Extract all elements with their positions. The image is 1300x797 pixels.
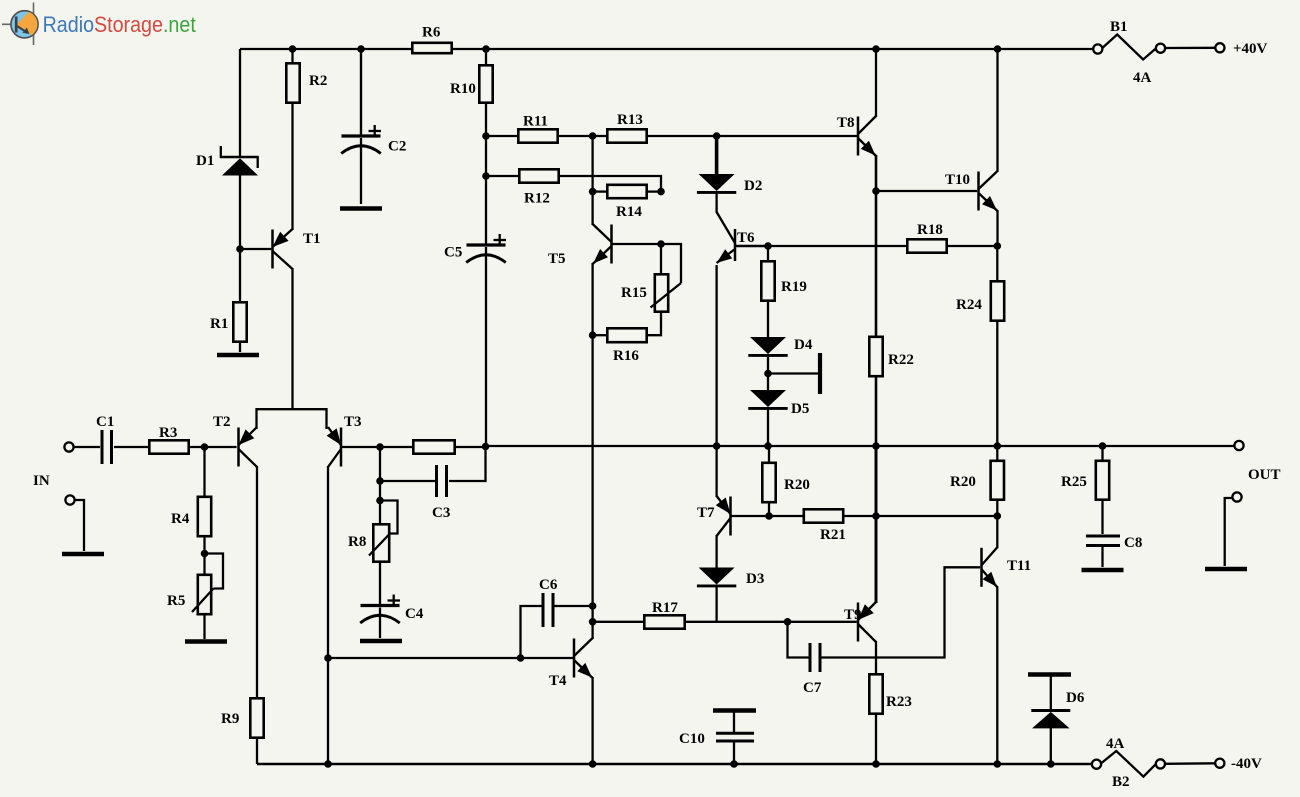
wire T7 base	[731, 515, 770, 517]
fuse B1	[1093, 35, 1165, 60]
node T10 collector junction	[994, 45, 1002, 53]
transistor T11	[982, 547, 998, 587]
capacitor plate top of D6	[1028, 672, 1071, 677]
svg-text:R1: R1	[210, 316, 228, 332]
label R2	[309, 73, 327, 89]
wire T9 emitter	[875, 446, 878, 603]
node T1 base junction	[236, 245, 244, 253]
ground (below C2)	[340, 206, 382, 211]
label T6	[737, 230, 755, 246]
label 4A (top)	[1133, 70, 1152, 86]
wire D1 to base node	[239, 176, 241, 250]
wire top +40V rail	[240, 48, 1094, 50]
resistor R4	[198, 497, 211, 536]
resistor R17	[644, 615, 684, 628]
node R19 top junction	[764, 242, 772, 250]
node C6 right junction	[589, 602, 597, 610]
label T5	[548, 251, 566, 267]
node T3 base junction	[376, 443, 384, 451]
label C10	[679, 731, 705, 747]
svg-text:T1: T1	[303, 231, 321, 247]
node R13 left junction	[589, 132, 597, 140]
transistor T3	[327, 427, 341, 467]
wire T8 emitter to R22	[875, 191, 878, 338]
wire R12 row	[486, 176, 661, 192]
capacitor C3	[437, 465, 447, 497]
rheostat R15	[651, 244, 682, 312]
node R23 rail junction	[872, 760, 880, 768]
wire R1 to ground	[239, 341, 241, 352]
svg-text:R25: R25	[1061, 474, 1087, 490]
wire T10 base row	[876, 190, 977, 192]
transistor T4	[574, 638, 593, 678]
svg-text:+40V: +40V	[1233, 41, 1268, 57]
wire R13 row to T8 base	[717, 135, 857, 137]
label C4	[405, 606, 424, 622]
svg-text:C10: C10	[679, 731, 705, 747]
label T3	[344, 414, 362, 430]
wire base node to R1	[239, 249, 241, 303]
wire thermal tap	[768, 372, 818, 374]
label R20 (left)	[784, 477, 810, 493]
wire T11 collector	[996, 516, 998, 548]
node R17 left junction	[589, 618, 597, 626]
node C2 top junction	[357, 45, 365, 53]
resistor R9	[250, 698, 263, 737]
wire C7 left	[788, 622, 809, 658]
label R10	[450, 81, 476, 97]
capacitor C6	[543, 593, 553, 627]
svg-text:R16: R16	[613, 348, 639, 364]
wire C5 down to output rail	[485, 247, 487, 446]
label R20 (right)	[950, 474, 976, 490]
wire R17 right	[684, 621, 788, 623]
wire R4 column	[203, 447, 205, 639]
resistor R24	[991, 281, 1004, 320]
node R8 loop junction	[376, 497, 384, 505]
wire R20 (right) bottom	[996, 499, 998, 516]
svg-text:R20: R20	[950, 474, 976, 490]
wire T5 base to R15	[612, 243, 662, 245]
wire C6 left	[521, 606, 542, 658]
svg-text:R24: R24	[956, 297, 982, 313]
thermal sense bar	[818, 353, 822, 394]
terminal +40V	[1215, 43, 1224, 52]
wire R18 right	[946, 245, 997, 247]
terminal -40V	[1215, 759, 1224, 768]
wire OUT lower to ground	[1225, 498, 1233, 566]
resistor R6	[412, 43, 451, 53]
transistor T6	[717, 212, 735, 263]
label T10	[945, 172, 970, 188]
svg-text:D3: D3	[746, 571, 764, 587]
label C3	[432, 505, 450, 521]
label D4	[794, 337, 813, 353]
wire R8 to C4	[379, 562, 381, 604]
label R23	[886, 694, 912, 710]
node R18 right junction	[994, 242, 1002, 250]
svg-text:T11: T11	[1007, 558, 1031, 574]
svg-text:RadioStorage.net: RadioStorage.net	[43, 13, 196, 38]
node C10 rail junction	[730, 760, 738, 768]
label R15	[621, 285, 647, 301]
svg-text:C7: C7	[803, 680, 822, 696]
wire T3 base to node A	[342, 446, 486, 448]
wire R23 to rail	[875, 713, 877, 764]
wire C2 to ground	[360, 138, 362, 204]
diode D3	[697, 568, 736, 586]
label C6	[539, 577, 558, 593]
svg-text:4A: 4A	[1106, 736, 1125, 752]
wire T1 collector down	[291, 268, 293, 409]
wire R24 to rail	[996, 320, 998, 446]
svg-text:R22: R22	[888, 352, 914, 368]
wire R24 top	[996, 246, 998, 282]
svg-text:R5: R5	[167, 593, 185, 609]
svg-text:R11: R11	[523, 114, 548, 130]
node R16 left junction	[589, 331, 597, 339]
resistor R10	[479, 65, 492, 102]
label T1	[303, 231, 321, 247]
svg-text:C2: C2	[388, 139, 406, 155]
ground (below R5)	[185, 639, 227, 644]
label T2	[213, 414, 231, 430]
node R4/R5 junction	[201, 550, 209, 558]
label D3	[746, 571, 764, 587]
svg-text:R23: R23	[886, 694, 912, 710]
wire IN lower to ground	[75, 500, 85, 551]
wire input row left	[73, 446, 236, 448]
label R12	[524, 191, 550, 207]
resistor R12	[519, 169, 558, 182]
node T8 collector junction	[872, 45, 880, 53]
wire C8 to ground	[1101, 547, 1103, 567]
wire C4 to ground	[379, 608, 381, 639]
node R12 junction	[482, 172, 490, 180]
node T4 emitter rail junction	[589, 760, 597, 768]
svg-text:T5: T5	[548, 251, 566, 267]
label C7	[803, 680, 822, 696]
node output rail / C5 junction	[482, 443, 490, 451]
wire D2 top	[715, 136, 719, 174]
wire R22 to rail	[875, 376, 878, 447]
label T7	[697, 505, 715, 521]
node T3 column bottom rail junction	[324, 760, 332, 768]
node D4/D5 junction	[764, 370, 772, 378]
label R17	[652, 600, 678, 616]
ground (output)	[1205, 567, 1247, 572]
svg-text:4A: 4A	[1133, 70, 1152, 86]
node R14 left junction	[589, 188, 597, 196]
wire R25 top	[1101, 446, 1103, 462]
ground (below C8)	[1082, 568, 1124, 573]
node R14 right junction	[657, 188, 665, 196]
resistor R18	[907, 239, 946, 252]
wire C7 right to T11 base	[822, 567, 981, 657]
wire B1 to +40V terminal	[1165, 47, 1216, 50]
node R22 rail junction	[872, 442, 880, 450]
label C5	[444, 245, 462, 261]
ground (below C4)	[360, 639, 402, 644]
wire rail to R2	[291, 49, 293, 64]
wire T2 collector down to R9	[256, 466, 258, 699]
transistor T1	[273, 229, 293, 269]
transistor T8	[858, 116, 876, 156]
wire R14 left	[591, 136, 593, 225]
wire T1 base	[240, 248, 271, 250]
svg-text:R20: R20	[784, 477, 810, 493]
label 4A (bottom)	[1106, 736, 1125, 752]
svg-text:R13: R13	[617, 112, 643, 128]
wire T3 collector down	[327, 466, 329, 764]
svg-text:R2: R2	[309, 73, 327, 89]
wire D3 to R17 row	[715, 586, 717, 622]
ground (below R1)	[217, 353, 259, 358]
fuse B2	[1092, 751, 1165, 777]
label R13	[617, 112, 643, 128]
label R14	[616, 204, 642, 220]
trimmer R5	[192, 554, 223, 615]
svg-text:C6: C6	[539, 577, 558, 593]
node C3 left junction	[376, 477, 384, 485]
svg-text:R4: R4	[171, 511, 190, 527]
wire D6 top	[1050, 676, 1052, 711]
wire R10 down to C5	[485, 102, 487, 244]
wire C3 right link	[449, 446, 486, 481]
svg-text:R9: R9	[221, 711, 239, 727]
label R18	[917, 222, 943, 238]
capacitor C1	[102, 430, 112, 464]
wire T4 base row	[328, 657, 573, 659]
wire T11 emitter long	[996, 586, 998, 764]
wire C6 right	[555, 605, 593, 607]
svg-text:C8: C8	[1124, 535, 1142, 551]
node T6/T7/rail junction	[713, 442, 721, 450]
resistor R16	[607, 328, 646, 342]
wire B2 to -40V terminal	[1165, 762, 1216, 765]
svg-text:T9: T9	[844, 607, 862, 623]
resistor R1	[233, 302, 246, 341]
node T4 base row junction	[324, 654, 332, 662]
label -40V	[1231, 756, 1262, 772]
wire D5 to rail	[767, 409, 769, 446]
label R22	[888, 352, 914, 368]
svg-text:D6: D6	[1066, 690, 1085, 706]
wire R20 bottom link	[768, 446, 770, 464]
label D5	[791, 401, 809, 417]
wire R17 row to T9 base	[788, 621, 857, 623]
resistor R22	[869, 337, 882, 376]
wire R15 bottom to R16	[646, 311, 661, 335]
wire rail to C2	[360, 49, 362, 135]
rheostat R8	[369, 501, 398, 562]
node D6 rail junction	[1047, 760, 1055, 768]
wire T7 collector / D3	[715, 535, 717, 568]
node C7 left junction	[784, 618, 792, 626]
resistor R19	[761, 261, 774, 300]
wire R20 to T7 base	[768, 502, 770, 517]
svg-text:C1: C1	[96, 414, 114, 430]
wire C6 junction to R17 row	[591, 606, 593, 639]
terminal OUT upper	[1234, 441, 1243, 450]
wire bottom -40V rail	[257, 763, 1092, 765]
label R19	[781, 279, 807, 295]
resistor R20 (right)	[991, 461, 1004, 500]
wire T4 emitter to rail	[591, 677, 593, 764]
label R25	[1061, 474, 1087, 490]
svg-text:R10: R10	[450, 81, 476, 97]
svg-text:IN: IN	[33, 473, 50, 489]
wire T6 base row	[735, 245, 768, 247]
diode D4	[748, 337, 787, 355]
svg-text:C5: C5	[444, 245, 462, 261]
label R5	[167, 593, 185, 609]
wire R2 to T1 emitter	[291, 102, 293, 230]
ground (input)	[62, 552, 104, 557]
wire diff pair top	[257, 409, 327, 429]
transistor T10	[979, 171, 998, 211]
wire R15 top	[660, 244, 662, 275]
label T8	[837, 115, 855, 131]
wire T5 emitter long down	[591, 263, 593, 606]
label C2	[388, 139, 406, 155]
wire T9 collector	[875, 641, 877, 675]
svg-text:D1: D1	[196, 153, 214, 169]
wire D6 to rail	[1050, 728, 1052, 764]
logo RadioStorage.net	[2, 3, 196, 46]
label C1	[96, 414, 114, 430]
capacitor C8	[1086, 536, 1120, 546]
terminal OUT lower	[1232, 492, 1241, 501]
node T5 base junction	[657, 240, 665, 248]
wire T6 base row to R18	[768, 245, 908, 247]
wire D4 to D5	[767, 356, 769, 390]
label R11	[523, 114, 548, 130]
wire R20 (right) top	[996, 446, 998, 462]
wire R17 left	[593, 621, 645, 623]
wire T10 emitter	[996, 210, 998, 246]
wire T8 emitter	[875, 155, 878, 191]
svg-text:R18: R18	[917, 222, 943, 238]
transistor T7	[716, 496, 731, 536]
node T11 collector node junction	[994, 512, 1002, 520]
svg-text:D2: D2	[744, 178, 762, 194]
svg-text:R14: R14	[616, 204, 642, 220]
wire T8 collector	[875, 49, 877, 117]
wire R19 to D4	[767, 300, 769, 337]
resistor R23	[869, 674, 882, 713]
svg-text:R3: R3	[159, 425, 177, 441]
wire R11 row	[486, 135, 593, 137]
transistor T5	[593, 224, 612, 264]
label +40V	[1233, 41, 1268, 57]
svg-text:B2: B2	[1112, 774, 1130, 790]
capacitor C5	[466, 234, 506, 263]
node R25 rail junction	[1099, 442, 1107, 450]
label T4	[549, 673, 567, 689]
capacitor C7	[810, 643, 820, 672]
label T9	[844, 607, 862, 623]
node T7 base junction	[765, 512, 773, 520]
svg-text:OUT: OUT	[1248, 467, 1281, 483]
wire R25 to C8	[1101, 499, 1103, 534]
resistor R25	[1096, 461, 1109, 500]
label R8	[348, 534, 366, 550]
wire T7 emitter from rail	[715, 446, 717, 497]
svg-text:D5: D5	[791, 401, 809, 417]
wire C3 left	[380, 480, 435, 482]
resistor R21	[769, 509, 997, 522]
label T11	[1007, 558, 1031, 574]
wire T10 collector	[996, 49, 998, 172]
wire T3 base branch down	[379, 447, 381, 525]
terminal IN lower	[65, 495, 74, 504]
resistor R3	[149, 440, 188, 453]
svg-text:R21: R21	[820, 527, 846, 543]
resistor R2	[286, 63, 299, 102]
wire R9 to bottom rail corner	[256, 737, 258, 764]
node T8 emitter junction	[872, 187, 880, 195]
resistor R14	[593, 185, 661, 198]
label IN	[33, 473, 50, 489]
node C6 left junction	[517, 654, 525, 662]
node R11 junction	[482, 132, 490, 140]
node R10 top junction	[482, 45, 490, 53]
label B2	[1112, 774, 1130, 790]
svg-text:T4: T4	[549, 673, 567, 689]
label D2	[744, 178, 762, 194]
node D2 top junction	[713, 132, 721, 140]
capacitor C4	[360, 595, 400, 624]
node R21/T9 junction	[872, 512, 880, 520]
label R3	[159, 425, 177, 441]
resistor R7 (unlabeled)	[413, 440, 454, 453]
node R2 top junction	[289, 45, 297, 53]
label R1	[210, 316, 228, 332]
svg-text:-40V: -40V	[1231, 756, 1262, 772]
svg-text:T2: T2	[213, 414, 231, 430]
svg-text:R17: R17	[652, 600, 678, 616]
node R24 rail junction	[994, 442, 1002, 450]
label R4	[171, 511, 190, 527]
svg-text:C4: C4	[405, 606, 424, 622]
svg-text:D4: D4	[794, 337, 813, 353]
svg-text:B1: B1	[1110, 19, 1128, 35]
svg-text:R19: R19	[781, 279, 807, 295]
wire D2 to T6 collector	[715, 193, 717, 213]
label R6	[422, 25, 441, 41]
node T11 emitter rail junction	[994, 760, 1002, 768]
label R9	[221, 711, 239, 727]
wire R19 top	[767, 246, 769, 262]
wire +rail left corner down to D1	[239, 49, 241, 157]
label C8	[1124, 535, 1142, 551]
svg-text:T3: T3	[344, 414, 362, 430]
wire R16 left	[593, 334, 608, 336]
diode D5	[748, 390, 787, 408]
label R21	[820, 527, 846, 543]
svg-text:C3: C3	[432, 505, 450, 521]
terminal IN upper	[64, 442, 73, 451]
svg-text:T6: T6	[737, 230, 755, 246]
wire rail to R10	[485, 49, 487, 66]
resistor R13	[593, 129, 717, 142]
label R24	[956, 297, 982, 313]
svg-text:T10: T10	[945, 172, 970, 188]
label R16	[613, 348, 639, 364]
label D6	[1066, 690, 1085, 706]
node R3/R4 junction	[201, 443, 209, 451]
